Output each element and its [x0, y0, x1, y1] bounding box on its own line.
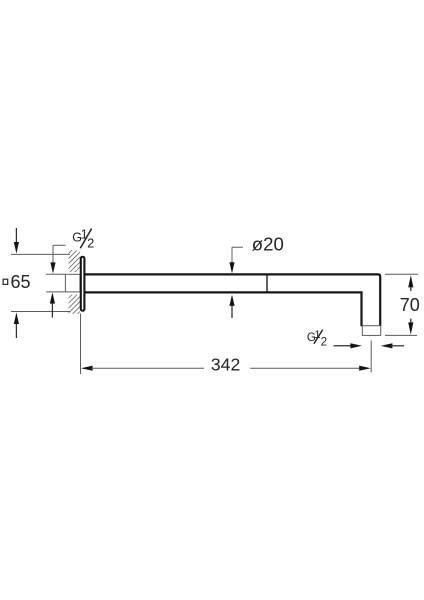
leader of diameter 20: [229, 247, 243, 273]
svg-text:ø20: ø20: [252, 234, 284, 255]
arm joint line: [266, 276, 268, 292]
extension line from outlet centre down: [370, 341, 372, 373]
arrow below arm pointing up: [229, 295, 234, 318]
G1/2 top label: [72, 227, 94, 250]
extension line outlet face right: [385, 334, 417, 336]
svg-text:2: 2: [87, 237, 94, 251]
wall hatch top: [69, 250, 80, 272]
wall hatch bottom: [69, 295, 80, 314]
label square symbol of 65: [3, 279, 8, 284]
svg-text:342: 342: [211, 354, 240, 374]
outlet thread collar: [362, 326, 380, 336]
extension line top of flange: [11, 253, 70, 255]
svg-text:2: 2: [321, 336, 327, 349]
extension line bend top right: [385, 273, 418, 275]
arrow below socket pointing up: [50, 292, 55, 317]
G1/2 bottom label: [307, 329, 327, 349]
svg-text:70: 70: [400, 295, 420, 315]
shower arm bottom outline with inner bend: [85, 292, 362, 326]
342 dim line right segment with arrow: [250, 366, 371, 371]
arrow for 70 dim, bottom: [408, 319, 413, 335]
arrow for 65 dim, top: [14, 228, 19, 254]
extension line socket top: [46, 273, 65, 275]
extension line socket bottom: [46, 291, 65, 293]
leader of top G1/2: [50, 245, 65, 273]
thread socket behind wall: [65, 274, 80, 292]
arrow pointing left at outlet right: [381, 343, 404, 348]
arrow for 65 dim, bottom: [14, 312, 19, 338]
svg-text:65: 65: [11, 272, 31, 292]
extension line bottom of flange: [11, 311, 70, 313]
shower arm top outline with right bend: [85, 274, 381, 326]
342 dim line left segment with arrow: [81, 366, 204, 371]
wall flange plate: [81, 257, 85, 311]
arrow pointing right at outlet left: [334, 343, 363, 348]
extension line from flange down: [80, 314, 82, 375]
arrow for 70 dim, top: [408, 275, 413, 291]
